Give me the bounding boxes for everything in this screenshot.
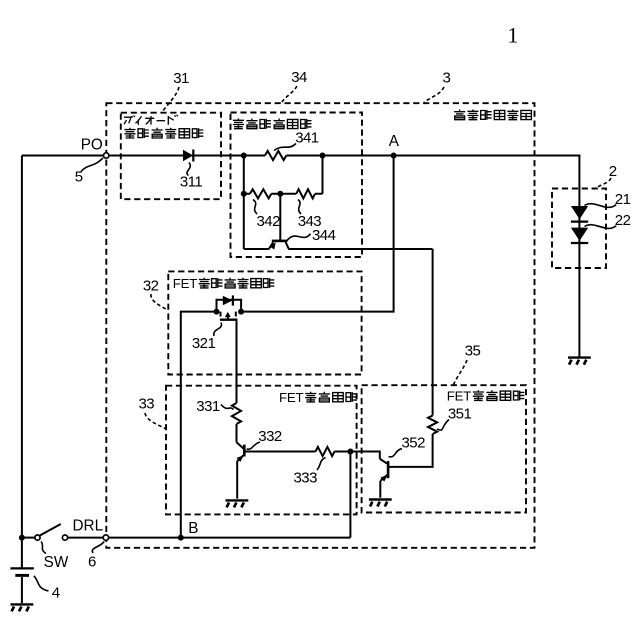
svg-text:332: 332	[258, 428, 282, 445]
label 34 dashed leader	[282, 86, 298, 103]
svg-text:2: 2	[609, 163, 617, 180]
label 341 leader	[274, 144, 296, 151]
wire: 331 to transistor 332 collector	[236, 424, 238, 442]
svg-text:21: 21	[615, 191, 631, 208]
label 333 leader	[317, 458, 326, 471]
svg-text:DRL: DRL	[72, 518, 103, 535]
label 2 dashed leader	[597, 178, 611, 188]
svg-text:321: 321	[192, 335, 216, 352]
wire: junction to 352 collector jog	[350, 452, 379, 459]
resistor 351	[428, 416, 437, 434]
label 6 leader	[92, 542, 104, 554]
svg-text:33: 33	[139, 396, 155, 413]
svg-text:6: 6	[88, 554, 96, 571]
switch SW terminal circle right	[62, 535, 67, 540]
wire: main supply rail from left corner through PO to LED branch	[22, 155, 265, 157]
ground under 332	[226, 499, 249, 501]
FET 321 gate plate	[220, 319, 238, 321]
switch SW terminal circle left	[35, 535, 40, 540]
svg-text:SW: SW	[44, 554, 69, 571]
label SW leader	[41, 542, 46, 554]
dashed box 31: diode reverse-connection protection circuit	[121, 113, 221, 200]
svg-text:FET: FET	[173, 276, 197, 291]
svg-text:FET: FET	[447, 389, 471, 404]
LED 22 cathode bar	[571, 242, 588, 244]
FET 321 junction dots on rail	[214, 309, 220, 315]
text 点灯制御装置 (fake glyphs)	[454, 110, 465, 120]
resistor 331	[232, 403, 241, 424]
wire: 332 emitter down to ground	[236, 461, 238, 499]
svg-text:A: A	[389, 133, 400, 150]
transistor 344 collector diagonal	[286, 242, 289, 249]
transistor 344 base bar	[272, 240, 288, 243]
svg-text:342: 342	[257, 213, 281, 230]
dashed box 3: lighting control device	[106, 103, 534, 548]
wire: 352 emitter down to ground	[379, 481, 381, 498]
text 電流検出回路 (fake glyphs)	[233, 119, 244, 129]
transistor 352 base bar	[387, 461, 390, 478]
svg-text:35: 35	[465, 343, 481, 360]
terminal PO (5) circle	[104, 153, 109, 158]
diode 311 (anode left, cathode right)	[183, 150, 193, 162]
battery 4	[10, 567, 34, 569]
svg-text:31: 31	[173, 70, 189, 87]
wire: 351 down then left to 352 base	[388, 434, 432, 467]
svg-text:22: 22	[615, 212, 631, 229]
svg-text:311: 311	[180, 174, 202, 191]
label 35 dashed leader	[454, 360, 468, 385]
label 321 leader	[214, 323, 222, 337]
resistor 341	[265, 151, 286, 160]
wire: gate lead down to resistor 331	[236, 320, 238, 403]
resistor 333	[316, 447, 335, 456]
svg-text:331: 331	[196, 398, 220, 415]
transistor 344 emitter diagonal with arrow	[269, 242, 273, 248]
label 31 dashed leader	[162, 87, 180, 113]
wire: node A down to FET drain rail	[241, 156, 394, 312]
resistor 343	[296, 189, 315, 198]
svg-text:341: 341	[295, 130, 319, 147]
wire: junction down to node B rail	[349, 452, 351, 538]
junction dot right of 341	[320, 153, 326, 159]
transistor 332 emitter diagonal with arrow	[237, 455, 244, 461]
LED 22 triangle	[571, 228, 588, 241]
svg-text:351: 351	[448, 406, 472, 423]
ground under LED branch	[568, 356, 591, 358]
wire: bottom row to emitter	[244, 248, 270, 250]
FET 321 source/drain stubs	[221, 312, 236, 317]
transistor 352 collector diagonal	[380, 459, 387, 464]
junction dot mid row left	[241, 191, 247, 197]
wire: 332 base to resistor 333	[245, 451, 316, 453]
node A junction dot	[391, 153, 397, 159]
node B junction dot	[178, 535, 184, 541]
LED 21 triangle	[571, 206, 588, 219]
label 332 leader	[247, 442, 261, 449]
wire: bottom row from collector to shutoff column	[288, 248, 432, 250]
svg-text:3: 3	[443, 69, 451, 86]
label 33 dashed leader	[145, 413, 166, 429]
label 352 leader	[389, 449, 403, 457]
label 4 leader	[34, 576, 49, 591]
FET 321 body-diode loop	[217, 300, 242, 312]
dashed box 34: current detection circuit	[231, 113, 363, 258]
svg-text:352: 352	[402, 435, 426, 452]
svg-text:32: 32	[143, 278, 159, 295]
junction dot left of 341	[241, 153, 247, 159]
transistor 332 collector diagonal	[237, 442, 245, 449]
svg-text:333: 333	[294, 470, 318, 487]
label 32 dashed leader	[151, 294, 168, 310]
ground under 352	[369, 498, 392, 500]
wire: 333 to junction	[335, 451, 351, 453]
text ダイオード (katakana fake)	[124, 115, 178, 125]
wire: FET source rail to node B column	[181, 312, 217, 538]
FET 321 substrate arrow	[227, 316, 229, 319]
wire: from detection bottom row down to resistor 351	[432, 249, 434, 416]
junction dot base network	[347, 449, 353, 455]
FET 321 body diode cathode bar	[232, 295, 234, 305]
label 5 leader	[81, 158, 103, 172]
junction node at battery column	[19, 535, 25, 541]
svg-text:4: 4	[52, 585, 60, 602]
wire: switch to DRL terminal	[68, 537, 104, 539]
label 331 leader	[221, 405, 234, 410]
label 3 dashed leader	[424, 87, 444, 103]
svg-text:5: 5	[75, 169, 83, 186]
wire: left vertical from PO corner down to battery	[21, 156, 23, 569]
resistor 342	[250, 189, 271, 198]
FET 321 body diode triangle	[223, 296, 233, 306]
label 343 leader	[298, 200, 301, 215]
wire: junction to switch SW	[22, 537, 35, 539]
terminal DRL (6) circle	[103, 535, 108, 540]
label 311 leader	[187, 163, 190, 176]
label 342 leader	[253, 200, 257, 215]
wire: left vertical of current sense bridge	[243, 156, 245, 250]
wire: base lead of 344 from mid dot	[279, 194, 281, 240]
junction dot between 342 and 343	[277, 191, 283, 197]
label 22 leader	[585, 225, 617, 229]
label 344 leader	[287, 234, 311, 241]
wire: main rail right part and LED branch down	[286, 156, 579, 358]
dashed box 33: FET startup circuit	[166, 386, 357, 515]
dashed box 35: FET shutoff circuit	[362, 385, 526, 512]
transistor 332 base bar	[243, 445, 246, 457]
svg-text:B: B	[188, 520, 198, 537]
switch SW blade	[40, 524, 61, 536]
wire: node B rail from DRL to startup circuit column	[109, 537, 351, 539]
wire: middle row segments	[244, 193, 323, 195]
transistor 352 emitter diagonal with arrow	[380, 475, 387, 481]
text 逆接保護回路 (fake glyphs)	[124, 128, 135, 138]
wire: right vertical of bridge	[322, 156, 324, 194]
svg-text:PO: PO	[81, 137, 103, 154]
svg-text:1: 1	[507, 23, 518, 48]
svg-text:FET: FET	[279, 390, 303, 405]
dashed box 2: light source	[552, 189, 606, 269]
label 21 leader	[585, 204, 617, 208]
svg-text:344: 344	[312, 227, 336, 244]
LED 21 cathode bar	[571, 221, 588, 223]
dashed box 32: FET reverse-connection protection circuit	[168, 271, 361, 374]
svg-text:34: 34	[291, 69, 307, 86]
ground under battery	[11, 603, 34, 605]
label 351 leader	[437, 420, 449, 431]
